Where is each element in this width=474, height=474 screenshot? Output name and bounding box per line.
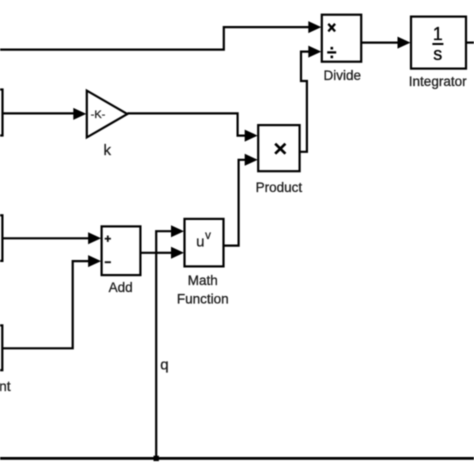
arrowhead into Integrator input	[398, 37, 411, 49]
arrowhead into Math Function input 1	[171, 225, 184, 237]
label k	[103, 142, 111, 159]
label Integrator	[409, 74, 467, 89]
integrator block	[411, 17, 466, 69]
math function block	[185, 219, 224, 267]
arrowhead into Divide input 1	[308, 21, 321, 33]
svg-text:k: k	[103, 142, 111, 159]
divide block	[322, 15, 361, 62]
svg-text:nt: nt	[0, 378, 11, 394]
arrowhead into Add input 1	[88, 232, 101, 244]
svg-text:Math: Math	[188, 273, 218, 288]
arrowhead into Product input 2	[245, 154, 258, 166]
arrowhead into gain k input	[73, 108, 86, 120]
wire block B to Add input 1	[2, 237, 90, 239]
wire Math Function output to Product input 2	[224, 160, 247, 246]
label Product	[256, 180, 303, 195]
junction dot q wire on bottom bus	[154, 456, 159, 461]
gain block k triangle	[87, 91, 128, 138]
svg-text:v: v	[205, 230, 211, 242]
gain value -K-	[91, 109, 106, 121]
math function symbol u^v	[196, 230, 211, 251]
svg-text:s: s	[433, 44, 442, 64]
svg-text:Divide: Divide	[324, 68, 362, 83]
constant block A (cut off at left edge)	[0, 90, 3, 136]
signal label q	[160, 356, 168, 373]
arrowhead into Divide input 2	[308, 46, 321, 58]
wire Integrator output to right edge	[466, 41, 474, 43]
wire block C to Add input 2	[2, 261, 90, 348]
label Math Function line 1	[188, 273, 218, 288]
svg-text:u: u	[196, 234, 204, 251]
arrowhead into Add input 2	[88, 255, 101, 267]
constant block B (cut off at left edge)	[0, 215, 2, 261]
wire q branch down to bottom bus	[155, 253, 157, 459]
svg-text:Integrator: Integrator	[409, 74, 467, 89]
divide symbol x	[328, 24, 335, 32]
wire W1 top-left to Divide input 1	[0, 27, 310, 49]
label Divide	[324, 68, 362, 83]
svg-text:Function: Function	[177, 291, 229, 306]
wire branch right to Math Function input 2	[156, 252, 172, 254]
svg-text:Product: Product	[256, 180, 303, 195]
constant block C (cut off at left edge)	[0, 325, 2, 370]
product block	[258, 125, 299, 171]
wire Product output to Divide input 2	[300, 52, 310, 152]
wire block A to gain k	[3, 112, 76, 114]
svg-text:1: 1	[433, 24, 443, 44]
add symbol +	[105, 236, 111, 242]
svg-text:-K-: -K-	[91, 109, 106, 121]
wire branch up to Math Function input 1	[156, 231, 172, 253]
integrator symbol 1/s	[432, 24, 443, 64]
product symbol x	[275, 144, 285, 154]
label Add	[109, 280, 133, 295]
svg-text:q: q	[160, 356, 168, 373]
add block	[102, 226, 141, 275]
label nt (cut-off Constant)	[0, 378, 11, 394]
svg-text:Add: Add	[109, 280, 133, 295]
wire Divide output to Integrator input	[361, 41, 399, 43]
label Math Function line 2	[177, 291, 229, 306]
add symbol minus	[105, 261, 111, 263]
arrowhead into Math Function input 2	[171, 247, 184, 259]
wire Add output to junction	[140, 252, 156, 254]
bottom bus wire	[0, 457, 474, 460]
divide symbol obelus	[327, 47, 336, 58]
wire gain k output to Product input 1	[127, 113, 246, 135]
arrowhead into Product input 1	[245, 130, 258, 142]
